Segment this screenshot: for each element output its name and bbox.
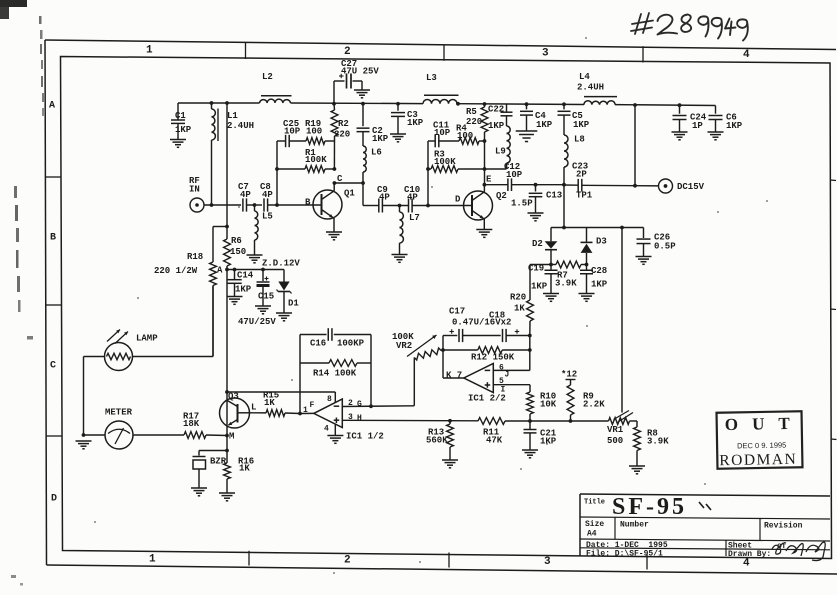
svg-text:Size: Size: [585, 520, 604, 529]
wire C10 to Q2 base: [412, 205, 471, 207]
svg-text:1KP: 1KP: [531, 282, 548, 292]
svg-text:4P: 4P: [379, 193, 390, 203]
svg-text:4P: 4P: [262, 190, 273, 200]
svg-text:C: C: [50, 361, 56, 372]
svg-text:0.47U/16Vx2: 0.47U/16Vx2: [452, 318, 511, 328]
connector DC15V: [659, 179, 673, 193]
wire C13 to L8 node: [536, 184, 565, 186]
resistor R15: [250, 412, 267, 414]
title block col line revision: [759, 519, 761, 541]
node L7 tap: [398, 204, 402, 208]
svg-text:D: D: [51, 494, 57, 505]
title block outline: [580, 494, 830, 496]
node R1-left junction: [275, 167, 279, 171]
node bus-C2 junction: [361, 102, 365, 106]
wire L6 to collector node: [334, 182, 363, 184]
capacitor C18: [502, 329, 504, 342]
title block col line sheet: [725, 541, 727, 557]
svg-text:R18: R18: [187, 252, 203, 262]
resistor R5: [484, 104, 486, 107]
node R10/C21 junction: [528, 419, 532, 423]
svg-text:IC1 1/2: IC1 1/2: [346, 432, 384, 442]
node D2 bottom junction: [549, 263, 553, 267]
svg-text:J: J: [505, 371, 510, 380]
wire pin8 lead: [334, 392, 336, 403]
resistor R9: [570, 380, 572, 386]
wire C17-C18: [463, 335, 501, 337]
inductor L1: [211, 103, 213, 109]
title block row line 1: [580, 517, 830, 519]
ground Q2 emitter: [476, 229, 492, 231]
capacitor C28: [586, 265, 588, 271]
svg-text:4P: 4P: [407, 193, 418, 203]
resistor R16: [226, 451, 228, 464]
capacitor C3: [397, 104, 399, 111]
node R3 left junction: [426, 167, 430, 171]
svg-text:10P: 10P: [284, 127, 301, 137]
capacitor C11: [428, 140, 435, 142]
svg-text:4: 4: [743, 558, 750, 570]
svg-text:500: 500: [607, 436, 623, 446]
svg-text:220 1/2W: 220 1/2W: [154, 266, 198, 276]
scan artifacts left edge: [39, 16, 42, 24]
svg-text:1.5P: 1.5P: [511, 199, 533, 209]
rheostat VR1: [609, 418, 630, 425]
wire L9 bottom corner: [506, 163, 508, 169]
svg-text:1K: 1K: [239, 464, 250, 474]
svg-text:6: 6: [499, 364, 504, 373]
svg-text:2.4UH: 2.4UH: [577, 83, 604, 93]
ground C28: [579, 293, 595, 295]
diode D2: [550, 228, 552, 242]
svg-text:R5: R5: [466, 107, 477, 117]
svg-text:1KP: 1KP: [175, 125, 192, 135]
svg-text:10P: 10P: [506, 170, 523, 180]
wire pin4 ground lead: [334, 424, 336, 435]
wire C18 to R20 node: [506, 335, 530, 337]
svg-text:M: M: [229, 432, 234, 442]
svg-text:DC15V: DC15V: [677, 182, 705, 192]
capacitor C23: [563, 184, 565, 186]
capacitor C19: [550, 265, 552, 271]
wire C node line: [363, 205, 379, 207]
node bus-L1 junction: [210, 101, 214, 105]
node R3-R5 junction: [483, 167, 487, 171]
wire C17 line left corner: [443, 335, 457, 337]
zone divider left A|B: [45, 176, 61, 178]
zone divider top 3|4: [642, 46, 644, 62]
node Q3 collector junction: [225, 390, 229, 394]
wire A down to Q3 collector: [226, 270, 228, 393]
title tick marks: [699, 502, 704, 508]
svg-text:F: F: [310, 401, 315, 410]
wire M down: [226, 436, 228, 451]
wire L6 down to C9 line: [362, 183, 364, 206]
node Q1 base junction: [275, 203, 279, 207]
svg-text:R20: R20: [510, 293, 526, 303]
resistor R10: [527, 392, 534, 414]
ground C27: [354, 89, 370, 91]
capacitor C12: [484, 184, 508, 186]
svg-text:IN: IN: [189, 185, 200, 195]
node F junction: [298, 412, 302, 416]
ground C13: [528, 212, 544, 214]
svg-text:C17: C17: [449, 307, 465, 317]
svg-text:47U 25V: 47U 25V: [341, 67, 379, 77]
zone divider right C|D: [831, 438, 837, 441]
inner border frame: [61, 57, 832, 559]
ground C1: [170, 139, 186, 141]
svg-text:220: 220: [466, 117, 482, 127]
svg-text:*12: *12: [561, 370, 577, 380]
wire G line: [342, 405, 414, 408]
op-amp IC1 1/2: [314, 399, 343, 428]
node R9 junction: [569, 419, 573, 423]
svg-text:K 7: K 7: [446, 371, 462, 381]
node bus-DC junction: [633, 103, 637, 107]
lamp: [105, 343, 133, 371]
capacitor C17: [458, 329, 460, 342]
wire top bus segment 1: [178, 102, 260, 104]
node R20 bottom junction: [528, 334, 532, 338]
wire box top left: [300, 334, 327, 336]
svg-text:1KP: 1KP: [407, 118, 424, 128]
node C13 tap: [534, 183, 538, 187]
wire VR1 feed: [621, 228, 623, 413]
svg-text:H: H: [357, 414, 362, 423]
ground D1: [276, 312, 292, 314]
inductor L9: [507, 126, 511, 163]
svg-text:R14 100K: R14 100K: [313, 369, 357, 379]
wire C11 column: [427, 141, 429, 206]
resistor R8: [630, 420, 638, 422]
capacitor C10: [408, 199, 410, 213]
node RFline-L1 junction: [210, 203, 214, 207]
rheostat VR2 arrow: [407, 335, 437, 357]
zone divider bottom 2|3: [448, 553, 450, 568]
node diode box left top: [562, 226, 566, 230]
ground C21: [522, 449, 538, 451]
handwritten # sign: [631, 13, 653, 34]
ground R16: [219, 492, 235, 494]
handwritten number 289949: [658, 15, 748, 41]
wire C25 left loop: [276, 141, 278, 205]
wire top bus segment 4: [615, 104, 716, 107]
node bus-R5 junction: [483, 102, 487, 106]
svg-text:L: L: [251, 403, 256, 413]
node R13 tap: [448, 419, 452, 423]
svg-text:VR2: VR2: [396, 341, 412, 351]
diode D3: [586, 228, 588, 243]
ground lamp/meter: [76, 440, 92, 442]
buzzer BZR: [193, 456, 206, 458]
wire bus-R6 column upper: [226, 103, 228, 227]
capacitor C24: [679, 105, 681, 114]
capacitor C14: [234, 270, 236, 280]
node R18 jog junction: [225, 225, 229, 229]
svg-text:560K: 560K: [426, 436, 448, 446]
zone divider top 2|3: [443, 45, 445, 61]
svg-text:D1: D1: [288, 299, 299, 309]
svg-text:1KP: 1KP: [536, 120, 553, 130]
capacitor C4: [526, 104, 528, 109]
svg-text:B: B: [50, 233, 56, 244]
svg-text:SF-95: SF-95: [612, 494, 687, 520]
svg-text:C13: C13: [546, 191, 562, 201]
transistor Q2: [464, 191, 493, 220]
svg-text:C14: C14: [237, 271, 254, 281]
resistor R7: [551, 264, 556, 266]
svg-text:1P: 1P: [692, 121, 703, 131]
OUT RODMAN stamp: [717, 411, 803, 469]
svg-text:Q2: Q2: [496, 191, 507, 201]
wire Q3 vertical: [226, 392, 228, 436]
wire lamp left: [84, 356, 105, 358]
wire DC15V line: [635, 185, 659, 187]
wire bus to DC15V: [634, 105, 636, 186]
svg-text:0.5P: 0.5P: [654, 242, 676, 252]
node R12 right junction: [528, 348, 532, 352]
wire to R9 node: [530, 420, 571, 422]
svg-text:3.9K: 3.9K: [555, 279, 577, 289]
node VR2 wiper junction: [441, 348, 445, 352]
zone divider right B|C: [831, 308, 837, 311]
title block col line size: [614, 517, 616, 539]
svg-text:C22: C22: [488, 105, 504, 115]
svg-text:L3: L3: [426, 73, 437, 83]
svg-text:A4: A4: [587, 530, 597, 539]
svg-text:2: 2: [344, 46, 351, 58]
ground C19: [543, 293, 559, 295]
node bus-C3 junction: [396, 102, 400, 106]
svg-text:A: A: [217, 266, 223, 276]
svg-text:G: G: [357, 400, 362, 409]
resistor R18: [210, 262, 217, 286]
svg-text:100KP: 100KP: [337, 339, 365, 349]
zone divider bottom 3|4: [646, 554, 648, 570]
svg-text:2.4UH: 2.4UH: [227, 121, 254, 131]
svg-text:L5: L5: [262, 212, 273, 222]
wire box right vertical: [370, 335, 372, 407]
capacitor C6: [715, 106, 717, 114]
svg-text:B: B: [305, 198, 311, 208]
svg-text:R6: R6: [231, 236, 242, 246]
svg-text:1KP: 1KP: [591, 280, 608, 290]
svg-text:1K: 1K: [514, 304, 525, 314]
svg-text:3: 3: [544, 556, 551, 568]
capacitor C7: [242, 198, 244, 211]
capacitor C27: [333, 81, 335, 104]
ground IC1 pin4: [327, 435, 343, 437]
svg-text:2: 2: [344, 555, 351, 567]
lamp arrows: [107, 330, 120, 342]
svg-text:TP1: TP1: [576, 191, 593, 201]
svg-text:47K: 47K: [486, 436, 503, 446]
node bus-R6 junction: [225, 101, 229, 105]
svg-text:100: 100: [306, 127, 322, 137]
ground BZR: [191, 487, 207, 489]
diode D1 zener: [283, 270, 285, 282]
wire E to diode box: [563, 185, 565, 228]
capacitor C26: [643, 228, 645, 239]
node BZR junction: [225, 449, 229, 453]
resistor R13: [449, 421, 451, 424]
node G-box junction: [369, 404, 373, 408]
svg-text:A: A: [49, 101, 55, 112]
wire pin5 line: [493, 384, 530, 386]
svg-text:C16: C16: [310, 339, 326, 349]
svg-text:C1: C1: [175, 111, 186, 121]
wire VR2 vertical: [413, 358, 415, 406]
resistor R3: [428, 168, 431, 170]
svg-text:1K: 1K: [264, 398, 275, 408]
connector RF IN: [190, 198, 204, 212]
svg-text:1KP: 1KP: [372, 134, 389, 144]
svg-text:1KP: 1KP: [726, 121, 743, 131]
svg-text:100: 100: [457, 131, 473, 141]
resistor R20: [527, 300, 534, 321]
wire lamp right: [133, 356, 214, 358]
zone divider bottom 1|2: [248, 551, 250, 566]
wire meter left: [84, 434, 106, 436]
resistor R12: [443, 349, 478, 351]
svg-text:D2: D2: [532, 239, 543, 249]
zone divider left C|D: [46, 435, 62, 437]
svg-text:RODMAN: RODMAN: [719, 451, 797, 469]
inductor L2: [260, 99, 291, 103]
node A junction: [225, 268, 229, 272]
svg-text:R2: R2: [338, 119, 349, 129]
svg-text:O U T: O U T: [725, 414, 795, 434]
transistor Q1: [313, 190, 342, 219]
wire C7-C8: [247, 204, 263, 206]
svg-text:Title: Title: [584, 499, 605, 507]
resistor R6: [226, 227, 228, 240]
capacitor C1: [177, 103, 179, 120]
wire R12 loop left vertical: [442, 336, 444, 379]
capacitor C2: [362, 104, 364, 127]
svg-text:VR1: VR1: [607, 425, 624, 435]
svg-text:L4: L4: [579, 72, 590, 82]
node L5 tap junction: [253, 203, 257, 207]
capacitor C21: [529, 421, 531, 429]
svg-text:1KP: 1KP: [235, 285, 252, 295]
node bus-C5 junction: [562, 102, 566, 106]
wire R20 jog: [530, 264, 551, 266]
outer border frame: [45, 40, 836, 50]
svg-text:Number: Number: [620, 521, 649, 530]
inductor L5: [254, 205, 256, 211]
capacitor C15 electrolytic: [262, 270, 264, 282]
op-amp K7 IC1 2/2: [464, 364, 494, 393]
ground C4: [516, 130, 538, 132]
resistor R17: [133, 434, 184, 436]
svg-text:E: E: [486, 175, 492, 185]
zone divider right A|B: [830, 179, 836, 182]
node VR1 feed top: [620, 226, 624, 230]
wire R12 loop right vertical: [529, 336, 531, 371]
capacitor C5: [563, 104, 565, 109]
ground C24: [672, 131, 688, 133]
wire H line: [342, 419, 478, 422]
svg-text:100K: 100K: [305, 155, 327, 165]
svg-text:C: C: [337, 174, 343, 184]
svg-text:150: 150: [230, 247, 246, 257]
node L6 bottom junction: [361, 181, 365, 185]
svg-text:1: 1: [146, 45, 153, 57]
resistor R14: [300, 362, 329, 364]
svg-text:Drawn By:: Drawn By:: [728, 550, 771, 559]
svg-text:L8: L8: [574, 135, 585, 145]
wire BZR branch: [199, 450, 227, 452]
wire A line: [227, 269, 284, 271]
capacitor C16: [327, 328, 329, 341]
svg-text:10K: 10K: [540, 400, 557, 410]
svg-text:DEC 0 9. 1995: DEC 0 9. 1995: [737, 441, 786, 451]
svg-text:Q1: Q1: [344, 189, 355, 199]
node R4 right junction: [483, 139, 487, 143]
node bus after L3: [456, 102, 460, 106]
rheostat VR1 wiper: [614, 411, 630, 420]
node bus-C27/R2 junction: [332, 102, 336, 106]
ground L7: [392, 254, 408, 256]
wire RF IN line: [204, 204, 241, 206]
inductor L4: [584, 101, 615, 105]
node R3 column tap: [426, 204, 430, 208]
svg-text:L7: L7: [409, 213, 420, 223]
ground C6: [708, 131, 724, 133]
inductor L3: [423, 99, 457, 103]
svg-text:4P: 4P: [240, 190, 251, 200]
ground C26: [636, 256, 652, 258]
svg-text:3.9K: 3.9K: [647, 437, 669, 447]
wire diode box top line: [551, 227, 644, 229]
wire R11 to R10 node: [505, 420, 530, 422]
svg-text:2.2K: 2.2K: [583, 400, 605, 410]
node lamp/meter junction: [82, 433, 86, 437]
signature scribble: [772, 542, 825, 560]
node C14 tap: [233, 268, 237, 272]
svg-text:L6: L6: [371, 148, 382, 158]
ground R13: [442, 459, 458, 461]
node DC15V junction: [633, 184, 637, 188]
svg-text:L1: L1: [227, 111, 238, 121]
svg-text:2P: 2P: [576, 170, 587, 180]
transistor Q3: [220, 398, 250, 428]
resistor R19: [306, 138, 325, 145]
svg-text:1KP: 1KP: [573, 120, 590, 130]
svg-text:1: 1: [149, 554, 156, 566]
node Q1 collector C junction: [333, 181, 337, 185]
wire pin8/collector line: [227, 391, 335, 393]
resistor R11: [478, 418, 505, 425]
resistor R1: [277, 168, 305, 170]
capacitor C13: [535, 185, 537, 192]
ground R8: [629, 465, 645, 467]
wire top bus segment 3: [457, 103, 584, 106]
svg-text:C15: C15: [258, 292, 274, 302]
node R1-right junction: [333, 167, 337, 171]
capacitor C8: [263, 198, 265, 211]
svg-text:10P: 10P: [434, 128, 451, 138]
node bus-C4 junction: [525, 102, 529, 106]
resistor R2: [333, 104, 336, 110]
ground Q1 emitter: [326, 231, 342, 233]
rheostat VR2: [414, 348, 441, 360]
wire C8 to Q1 base: [268, 204, 322, 206]
svg-text:4: 4: [324, 425, 329, 434]
svg-text:D: D: [455, 195, 461, 205]
